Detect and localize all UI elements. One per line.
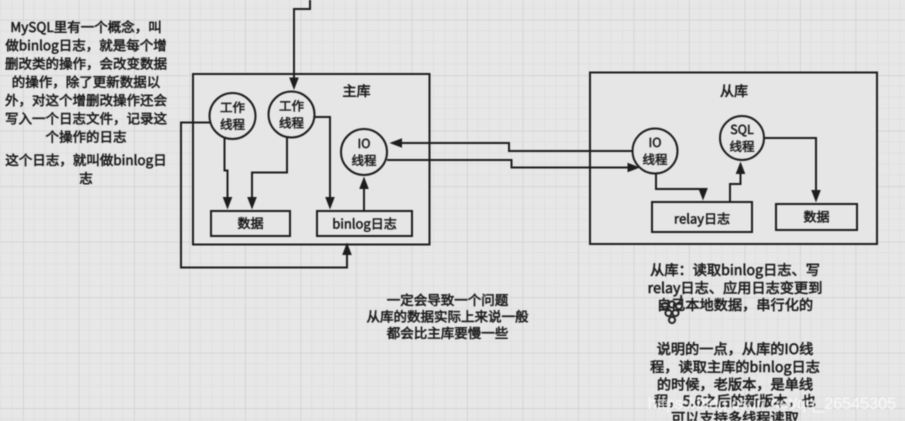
svg-text:https://blog.csdn.net/qq_26545: https://blog.csdn.net/qq_26545305 xyxy=(648,395,896,413)
text block: binlog explanation (top-left) xyxy=(6,20,167,184)
wire: worker thread 2 to 数据 xyxy=(247,136,287,210)
worker thread circle 2 工作线程 xyxy=(269,92,315,138)
wire: slave IO线程 to relay日志 xyxy=(656,172,708,201)
binlog box binlog日志 xyxy=(317,211,412,236)
label 主库 xyxy=(343,84,370,97)
wire: worker thread 1 to 数据 xyxy=(223,138,233,210)
wire: top entry into worker thread 2 xyxy=(289,0,310,90)
relay log box relay日志 xyxy=(652,202,752,232)
slave IO thread circle IO线程 xyxy=(633,129,678,174)
worker thread circle 1 工作线程 xyxy=(210,93,256,139)
data box 数据 (slave) xyxy=(776,204,857,230)
text block: IO thread note (bottom right) xyxy=(651,342,820,421)
wire: SQL线程 to slave 数据 xyxy=(763,138,821,203)
data box 数据 (master) xyxy=(211,211,290,236)
wire: relay日志 to SQL线程 xyxy=(730,162,745,203)
text block: replication lag note (bottom middle) xyxy=(367,294,528,340)
wire: slave IO线程 to master IO线程 (request) xyxy=(390,138,634,151)
wire: worker thread 2 to binlog日志 xyxy=(313,117,335,210)
wire: binlog日志 up to IO线程 xyxy=(359,177,369,212)
wire: master IO线程 to slave IO线程 (binlog data) xyxy=(387,160,640,172)
wire: loop worker thread 1 around to binlog日志 bottom xyxy=(181,123,352,268)
master IO thread circle IO线程 xyxy=(341,129,387,175)
master box 主库 xyxy=(193,74,430,245)
slave box 从库 xyxy=(590,73,877,245)
SQL thread circle SQL线程 xyxy=(720,116,764,160)
text block: slave behaviour (right) xyxy=(649,263,821,311)
doodle: small grape-like scribble xyxy=(662,295,682,323)
label 从库 xyxy=(721,84,748,97)
